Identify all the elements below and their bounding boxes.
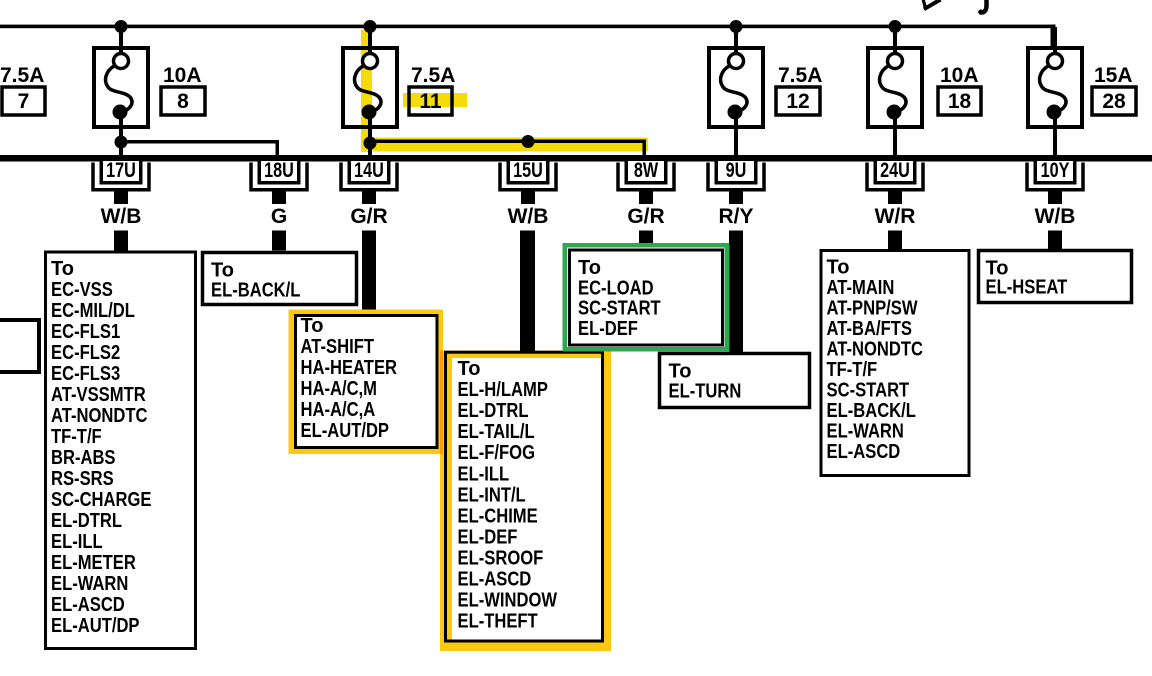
- svg-text:15U: 15U: [513, 159, 543, 182]
- svg-text:To: To: [51, 258, 74, 280]
- connector 14U: [341, 159, 397, 204]
- svg-text:To: To: [211, 260, 234, 282]
- svg-text:EL-WINDOW: EL-WINDOW: [458, 590, 558, 612]
- svg-text:BR-ABS: BR-ABS: [51, 447, 116, 469]
- svg-text:HA-A/C,M: HA-A/C,M: [301, 378, 378, 400]
- svg-text:EL-ASCD: EL-ASCD: [458, 569, 532, 591]
- svg-text:SC-CHARGE: SC-CHARGE: [51, 489, 152, 511]
- wire 18U down to box: [272, 231, 286, 251]
- svg-text:SC-START: SC-START: [578, 298, 661, 320]
- svg-text:To: To: [669, 361, 692, 383]
- connector 17U: [93, 159, 149, 204]
- connector 9U: [708, 159, 764, 204]
- fuse rating label 10A / 18: [938, 64, 981, 115]
- svg-text:EL-WARN: EL-WARN: [827, 421, 904, 443]
- svg-text:11: 11: [419, 90, 442, 113]
- svg-text:10A: 10A: [940, 64, 979, 87]
- fuse rating label 10A / 8: [161, 64, 205, 115]
- svg-text:AT-PNP/SW: AT-PNP/SW: [827, 298, 918, 320]
- wire branch fuse 8 output to connector 18U: [119, 140, 279, 157]
- fuse rating label 7.5A / 7: [0, 64, 45, 115]
- wire 14U down to box: [362, 231, 376, 311]
- destination box To EL-H/LAMP... (15U W/B) yellow highlighted: [440, 351, 611, 652]
- svg-text:7.5A: 7.5A: [778, 64, 822, 87]
- svg-text:EL-SROOF: EL-SROOF: [458, 547, 544, 569]
- wire 17U down to box: [114, 231, 128, 251]
- highlighter stripe horizontal on wire fuse 11 to 8W: [361, 138, 648, 152]
- svg-text:EL-AUT/DP: EL-AUT/DP: [301, 420, 390, 442]
- svg-text:17U: 17U: [106, 159, 136, 182]
- svg-text:AT-NONDTC: AT-NONDTC: [51, 405, 148, 427]
- svg-text:EL-HSEAT: EL-HSEAT: [986, 277, 1068, 299]
- svg-text:EL-BACK/L: EL-BACK/L: [827, 400, 916, 422]
- svg-text:EL-AUT/DP: EL-AUT/DP: [51, 615, 140, 637]
- svg-text:AT-BA/FTS: AT-BA/FTS: [827, 318, 912, 340]
- connector 18U: [251, 159, 307, 204]
- svg-text:AT-VSSMTR: AT-VSSMTR: [51, 384, 146, 406]
- highlighter stripe vertical through fuse 11: [361, 30, 372, 152]
- wire 10Y down to box: [1048, 231, 1062, 250]
- svg-text:18U: 18U: [264, 159, 294, 182]
- svg-text:EL-ILL: EL-ILL: [51, 531, 103, 553]
- partial box at left edge: [0, 320, 39, 372]
- destination box To EL-BACK/L (18U G): [203, 253, 357, 305]
- svg-text:15A: 15A: [1094, 64, 1133, 87]
- svg-text:To: To: [458, 358, 481, 380]
- junction node on top bus at fuse 11: [364, 20, 377, 33]
- svg-text:To: To: [578, 257, 601, 279]
- svg-text:AT-NONDTC: AT-NONDTC: [827, 339, 924, 361]
- svg-text:W/R: W/R: [875, 205, 916, 228]
- svg-text:8W: 8W: [634, 159, 658, 182]
- destination box To EC-LOAD... (8W G/R) green highlighted: [563, 243, 730, 352]
- svg-text:G/R: G/R: [627, 205, 664, 228]
- svg-text:G: G: [271, 205, 287, 228]
- svg-text:28: 28: [1102, 90, 1126, 113]
- svg-text:EL-DTRL: EL-DTRL: [458, 400, 529, 422]
- svg-text:7: 7: [18, 90, 30, 113]
- svg-text:HA-HEATER: HA-HEATER: [301, 357, 398, 379]
- junction node on branch wire at connector 15U: [522, 135, 535, 148]
- svg-text:EL-BACK/L: EL-BACK/L: [211, 280, 300, 302]
- fuse F8 symbol: [94, 27, 148, 142]
- fuse F18 symbol: [868, 27, 922, 157]
- highlighter band over fuse label 11: [403, 93, 467, 107]
- fuse rating label 7.5A / 11 (highlighted): [409, 64, 455, 115]
- svg-text:EL-CHIME: EL-CHIME: [458, 505, 538, 527]
- fuse F11 symbol: [343, 27, 397, 143]
- svg-text:10A: 10A: [163, 64, 202, 87]
- svg-text:EL-H/LAMP: EL-H/LAMP: [458, 379, 548, 401]
- svg-text:EL-ILL: EL-ILL: [458, 463, 510, 485]
- destination box To EL-TURN (9U R/Y): [660, 354, 810, 408]
- svg-text:EL-METER: EL-METER: [51, 552, 136, 574]
- cut-off handwriting triangle glyph top right: [923, 0, 926, 9]
- connector 15U: [500, 159, 556, 204]
- svg-text:EL-DTRL: EL-DTRL: [51, 510, 122, 532]
- svg-text:HA-A/C,A: HA-A/C,A: [301, 399, 376, 421]
- connector 24U: [867, 159, 923, 204]
- junction node on top bus at fuse 12: [730, 20, 743, 33]
- svg-text:W/B: W/B: [1035, 205, 1076, 228]
- svg-text:TF-T/F: TF-T/F: [827, 359, 878, 381]
- fuse rating label 15A / 28: [1092, 64, 1136, 115]
- svg-text:SC-START: SC-START: [827, 380, 910, 402]
- svg-text:8: 8: [177, 90, 189, 113]
- svg-text:RS-SRS: RS-SRS: [51, 468, 114, 490]
- destination box To EC-VSS... (17U W/B): [46, 252, 196, 649]
- svg-text:24U: 24U: [880, 159, 910, 182]
- svg-text:EC-FLS1: EC-FLS1: [51, 321, 120, 343]
- fuse F12 symbol: [709, 27, 763, 157]
- cut-off handwriting hook glyph top right: [980, 0, 987, 12]
- junction node on top bus at fuse 8: [115, 20, 128, 33]
- svg-text:To: To: [827, 257, 850, 279]
- svg-text:10Y: 10Y: [1041, 159, 1070, 182]
- connector 10Y: [1027, 159, 1083, 204]
- svg-text:AT-SHIFT: AT-SHIFT: [301, 336, 375, 358]
- svg-text:EL-TAIL/L: EL-TAIL/L: [458, 421, 535, 443]
- junction node below fuse 11: [364, 137, 377, 150]
- svg-text:EC-LOAD: EC-LOAD: [578, 277, 654, 299]
- svg-text:EL-ASCD: EL-ASCD: [827, 441, 901, 463]
- connector 8W: [618, 159, 674, 204]
- svg-text:18: 18: [948, 90, 972, 113]
- top bus corner wire to fuse 28: [1051, 25, 1056, 48]
- svg-text:R/Y: R/Y: [718, 205, 753, 228]
- destination box To EL-HSEAT (10Y W/B): [979, 251, 1132, 303]
- top bus wire: [0, 25, 1055, 29]
- svg-text:7.5A: 7.5A: [411, 64, 455, 87]
- svg-text:AT-MAIN: AT-MAIN: [827, 277, 895, 299]
- svg-text:G/R: G/R: [350, 205, 387, 228]
- svg-text:EL-F/FOG: EL-F/FOG: [458, 442, 536, 464]
- svg-text:W/B: W/B: [101, 205, 142, 228]
- svg-text:EL-WARN: EL-WARN: [51, 573, 128, 595]
- svg-text:W/B: W/B: [508, 205, 549, 228]
- destination box To AT-SHIFT... (14U G/R) yellow highlighted: [289, 310, 444, 455]
- svg-text:7.5A: 7.5A: [0, 64, 44, 87]
- svg-text:12: 12: [786, 90, 809, 113]
- svg-text:EL-INT/L: EL-INT/L: [458, 484, 526, 506]
- svg-text:EC-FLS3: EC-FLS3: [51, 363, 120, 385]
- svg-text:14U: 14U: [354, 159, 384, 182]
- junction node below fuse 8: [115, 136, 128, 149]
- svg-text:EL-DEF: EL-DEF: [578, 318, 638, 340]
- svg-text:To: To: [301, 315, 324, 337]
- svg-text:TF-T/F: TF-T/F: [51, 426, 102, 448]
- svg-text:EL-ASCD: EL-ASCD: [51, 594, 125, 616]
- svg-text:EC-FLS2: EC-FLS2: [51, 342, 120, 364]
- fuse F28 symbol: [1028, 27, 1082, 157]
- junction node on top bus at fuse 18: [889, 20, 902, 33]
- svg-text:EC-MIL/DL: EC-MIL/DL: [51, 300, 135, 322]
- svg-text:EC-VSS: EC-VSS: [51, 279, 113, 301]
- svg-text:9U: 9U: [726, 159, 747, 182]
- svg-text:EL-THEFT: EL-THEFT: [458, 611, 538, 633]
- wire branch fuse 11 output to connector 8W: [368, 140, 646, 157]
- svg-text:EL-TURN: EL-TURN: [669, 381, 742, 403]
- lower bus wire (fuse block bottom rail): [0, 155, 1152, 162]
- destination box To AT-MAIN... (24U W/R): [821, 251, 969, 476]
- wire 8W down to box: [639, 231, 653, 244]
- wire 15U down to box: [520, 231, 535, 353]
- wire 9U down to box: [729, 231, 743, 353]
- fuse rating label 7.5A / 12: [776, 64, 822, 115]
- svg-text:EL-DEF: EL-DEF: [458, 526, 518, 548]
- wire 24U down to box: [888, 231, 902, 250]
